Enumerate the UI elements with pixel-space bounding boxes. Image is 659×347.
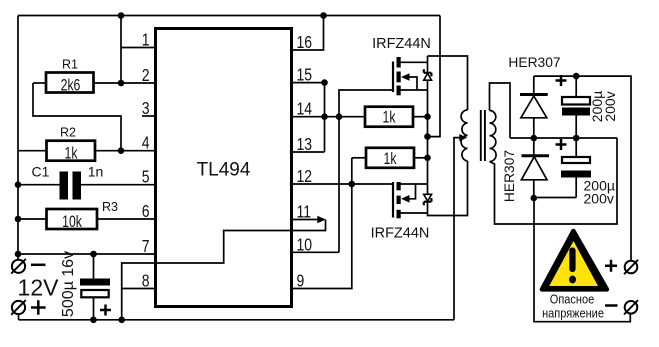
svg-text:R2: R2: [60, 126, 76, 140]
wire pin 9 riser: [292, 158, 352, 289]
wire R1 left stub: [33, 82, 46, 84]
wire 1k top right: [413, 116, 428, 118]
svg-text:12: 12: [297, 166, 313, 186]
wire mid node line: [510, 137, 617, 139]
capacitor C4 500u 16v electrolytic: [80, 279, 110, 298]
resistor R3 10k: [47, 209, 98, 229]
zener diode D3 across Q1: [424, 69, 432, 80]
diode D2 HER307: [521, 156, 549, 180]
wire source net column: [427, 80, 429, 194]
node junction 4: [118, 147, 125, 154]
wire Q2 drain lead: [401, 212, 428, 214]
resistor R2 1k: [47, 141, 96, 161]
wire pin 15 to pin 13: [324, 83, 326, 152]
wire top negative rail: [18, 15, 440, 17]
op-amp/PWM controller U1 TL494 body: [156, 29, 292, 307]
svg-text:2: 2: [142, 65, 150, 85]
node junction 1: [118, 12, 125, 19]
svg-text:200v: 200v: [584, 190, 614, 206]
wire Q2 drain to primary bottom: [428, 161, 468, 216]
wire gate Q1 jog: [339, 90, 393, 117]
zener diode D4 across Q2: [424, 194, 432, 205]
plus mark C3: [556, 139, 567, 150]
resistor R4 1k gate top: [365, 107, 413, 127]
label C2 200u 200v: [589, 91, 618, 122]
wire C2 top lead: [575, 76, 577, 97]
label C3 200u 200v: [584, 178, 615, 207]
svg-text:6: 6: [142, 201, 150, 221]
capacitor C3 200u 200v: [561, 157, 591, 178]
wire pin 1: [121, 47, 156, 49]
node junction 8: [90, 251, 97, 258]
svg-text:10k: 10k: [62, 213, 82, 231]
wire R3 to pin 6: [97, 218, 156, 220]
wire pin 10 riser: [338, 117, 340, 253]
wire Q2 body tie: [408, 184, 416, 199]
label danger text: [542, 293, 604, 321]
wire pin 11: [292, 219, 318, 221]
wire pin 8 to pin 11 jog: [122, 220, 326, 320]
wire pin 8 stub: [122, 288, 156, 290]
wire pin 7: [18, 253, 156, 255]
node junction 15: [424, 133, 431, 140]
svg-text:2k6: 2k6: [61, 77, 81, 95]
svg-text:1k: 1k: [65, 145, 78, 163]
wire C3 top lead: [575, 138, 577, 157]
plus mark C2: [556, 75, 567, 86]
transformer T1 center tap arrow: [459, 134, 467, 141]
node junction 6: [15, 216, 22, 223]
svg-text:8: 8: [142, 271, 150, 291]
wire 1k bottom left: [352, 157, 366, 159]
node junction 16: [424, 155, 431, 162]
node junction 12: [321, 113, 328, 120]
transistor Q2 IRFZ44N: [393, 182, 410, 218]
pin numbers right side U1: [297, 32, 313, 291]
wire Q2 source lead: [401, 183, 428, 185]
capacitor C1 1n: [60, 172, 82, 200]
wire plus output path: [534, 76, 631, 261]
wire C3 to D2 anode: [534, 197, 576, 199]
transformer T1 secondary winding: [490, 111, 497, 162]
node junction 13: [336, 113, 343, 120]
svg-text:4: 4: [142, 133, 150, 153]
wire D1 cathode lead: [533, 76, 535, 94]
node junction 3: [118, 80, 125, 87]
svg-text:5: 5: [142, 167, 150, 187]
wire C1 left: [18, 184, 60, 186]
plus mark C4: [100, 305, 111, 316]
wire center-tap riser: [454, 138, 460, 320]
arrow junction at pin 11: [317, 216, 326, 224]
node junction 9: [90, 317, 97, 324]
node junction 21: [573, 73, 580, 80]
wire cap C4 bottom lead: [93, 297, 95, 320]
svg-text:Опасное: Опасное: [550, 293, 595, 307]
wire mid loop to secondary bottom: [490, 138, 618, 224]
svg-text:11: 11: [297, 202, 312, 222]
terminal output minus: [605, 300, 638, 314]
wire riser to pin 2: [120, 16, 122, 84]
wire D1 anode / D2 cathode: [533, 118, 535, 155]
svg-text:3: 3: [142, 98, 150, 118]
terminal 12V minus: [11, 259, 45, 274]
wire Q1 body tie: [408, 77, 417, 90]
node junction 19: [573, 135, 580, 142]
wire C1 to pin 5: [81, 184, 156, 186]
svg-text:1: 1: [142, 30, 150, 50]
warning sign danger high voltage: [542, 231, 607, 289]
wire Q1 drain to primary top: [428, 56, 468, 110]
wire pin 10: [292, 251, 340, 253]
svg-text:1k: 1k: [384, 150, 397, 168]
node junction 10: [118, 317, 125, 324]
svg-text:500µ 16v: 500µ 16v: [60, 251, 77, 317]
wire pin 13: [292, 151, 325, 153]
svg-text:R3: R3: [102, 200, 118, 214]
node junction 20: [531, 195, 538, 202]
transistor Q1 IRFZ44N: [393, 57, 410, 95]
diode D1 HER307: [520, 95, 548, 118]
svg-text:12V: 12V: [18, 274, 60, 300]
wire Q1 source lead: [401, 89, 428, 91]
svg-text:напряжение: напряжение: [542, 307, 604, 321]
capacitor C2 200u 200v: [562, 97, 590, 116]
wire pin 3 stub: [142, 115, 156, 117]
terminal 12V plus: [11, 300, 45, 315]
wire minus output path: [534, 198, 630, 322]
wire pin 12 to gate Q2: [292, 183, 394, 185]
wire R2 to pin 4: [95, 150, 156, 152]
wire D2 anode lead: [533, 180, 535, 198]
svg-text:15: 15: [297, 65, 313, 85]
terminal output plus: [605, 260, 638, 274]
pin numbers left side U1: [142, 30, 150, 291]
wire above zener D3: [427, 56, 429, 73]
svg-text:1n: 1n: [88, 164, 104, 180]
transformer T1 primary winding: [461, 110, 467, 161]
wire C2 bottom lead: [575, 116, 577, 139]
svg-text:IRFZ44N: IRFZ44N: [371, 226, 430, 242]
node junction 18: [531, 135, 538, 142]
svg-text:1k: 1k: [383, 109, 396, 127]
resistor R1 2k6: [46, 73, 94, 93]
resistor R5 1k gate bottom: [366, 148, 414, 168]
svg-text:9: 9: [297, 271, 305, 291]
node junction 11: [321, 79, 328, 86]
wire R3 left: [18, 218, 47, 220]
wire R2 left: [18, 150, 47, 152]
wire C3 bottom lead: [575, 178, 577, 198]
wire left negative rail: [17, 16, 19, 260]
wire pin 15: [292, 82, 325, 84]
svg-text:14: 14: [297, 99, 313, 119]
wire cap C4 top lead: [93, 254, 95, 279]
wire under plus terminal: [18, 314, 20, 320]
wire pin 14 to 1k top: [292, 116, 366, 118]
svg-text:13: 13: [297, 134, 313, 154]
wire bottom positive rail: [19, 319, 455, 321]
svg-text:HER307: HER307: [508, 55, 560, 70]
wire pin 2 from R1: [94, 82, 156, 84]
svg-text:C1: C1: [32, 164, 50, 180]
wire Q1 drain lead: [401, 61, 428, 63]
wire secondary top route: [490, 83, 511, 138]
svg-text:IRFZ44N: IRFZ44N: [372, 36, 431, 52]
transformer T1 core: [481, 110, 485, 161]
node junction 5: [15, 181, 22, 188]
wire rail drop to source net: [428, 16, 441, 137]
wire R1 jog to pin4 node: [33, 83, 121, 151]
svg-text:7: 7: [142, 236, 150, 256]
svg-text:TL494: TL494: [197, 160, 251, 181]
node junction 2: [320, 12, 327, 19]
node junction 7: [15, 251, 22, 258]
svg-text:HER307: HER307: [502, 150, 517, 202]
svg-text:R1: R1: [62, 58, 78, 72]
svg-text:200v: 200v: [602, 91, 618, 121]
node junction 17: [349, 181, 356, 188]
wire pin 16 to top rail: [292, 16, 324, 51]
svg-text:16: 16: [297, 32, 313, 52]
node junction 14: [424, 113, 431, 120]
wire 1k bottom right: [414, 157, 428, 159]
svg-text:10: 10: [297, 235, 313, 255]
